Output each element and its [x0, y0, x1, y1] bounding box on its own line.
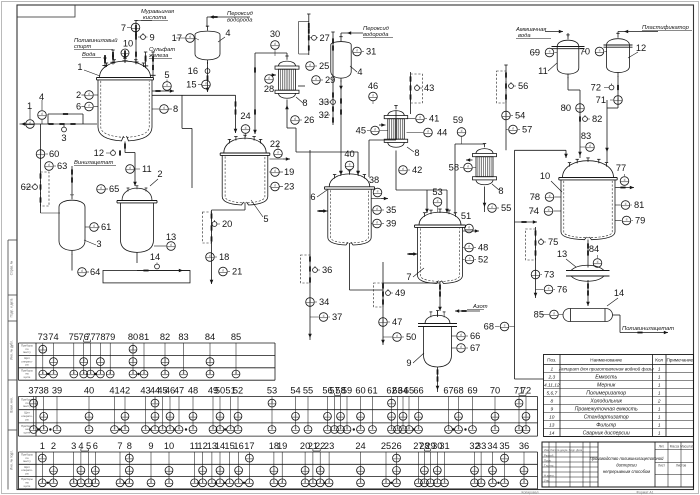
svg-text:ıl: ıl — [53, 371, 55, 375]
svg-text:ıl: ıl — [154, 427, 156, 431]
svg-text:14: 14 — [150, 252, 160, 262]
svg-text:65: 65 — [109, 184, 119, 194]
svg-text:ıl: ıl — [43, 427, 45, 431]
svg-text:8: 8 — [127, 441, 132, 451]
svg-text:80: 80 — [128, 332, 138, 342]
svg-text:ıl: ıl — [53, 480, 55, 484]
svg-text:месту: месту — [23, 350, 31, 354]
svg-text:ıl: ıl — [468, 226, 470, 230]
svg-text:Производство поливинилацетатно: Производство поливинилацетатной — [590, 456, 665, 461]
svg-text:ıl: ıl — [124, 50, 126, 54]
svg-text:67: 67 — [443, 386, 453, 396]
svg-text:9: 9 — [550, 407, 553, 413]
svg-text:ıl: ıl — [249, 480, 251, 484]
svg-text:ıl: ıl — [346, 427, 348, 431]
svg-text:8: 8 — [302, 98, 307, 108]
svg-text:ıl: ıl — [549, 194, 551, 198]
svg-text:ıl: ıl — [209, 371, 211, 375]
svg-text:ıl: ıl — [132, 359, 134, 363]
svg-text:ıl: ıl — [42, 346, 44, 350]
svg-text:68: 68 — [453, 386, 463, 396]
svg-text:11: 11 — [538, 66, 548, 76]
svg-text:46: 46 — [368, 81, 378, 91]
svg-text:38: 38 — [369, 175, 379, 185]
svg-text:ıl: ıl — [319, 480, 321, 484]
svg-text:ıl: ıl — [294, 117, 296, 121]
svg-text:6: 6 — [76, 102, 81, 112]
svg-text:75: 75 — [548, 237, 558, 247]
svg-text:ıl: ıl — [271, 400, 273, 404]
svg-text:82: 82 — [160, 332, 170, 342]
svg-text:ıl: ıl — [56, 427, 58, 431]
svg-text:44: 44 — [437, 128, 447, 138]
svg-text:15: 15 — [186, 80, 196, 90]
svg-text:ıl: ıl — [360, 468, 362, 472]
svg-text:6: 6 — [93, 441, 98, 451]
svg-text:ıl: ıl — [461, 129, 463, 133]
svg-text:ıl: ıl — [219, 427, 221, 431]
svg-text:45: 45 — [356, 126, 366, 136]
svg-text:ıl: ıl — [418, 480, 420, 484]
svg-text:ıl: ıl — [114, 427, 116, 431]
svg-text:Наименование: Наименование — [590, 358, 622, 363]
svg-text:25: 25 — [319, 61, 329, 71]
svg-text:ıl: ıl — [168, 480, 170, 484]
svg-text:13: 13 — [549, 423, 555, 429]
svg-text:ıl: ıl — [168, 468, 170, 472]
svg-text:ıl: ıl — [376, 221, 378, 225]
svg-text:43: 43 — [424, 83, 434, 93]
svg-text:1: 1 — [77, 62, 82, 72]
svg-text:ıl: ıl — [340, 427, 342, 431]
svg-text:1: 1 — [27, 101, 32, 111]
svg-text:16: 16 — [233, 441, 243, 451]
svg-text:26: 26 — [391, 441, 401, 451]
svg-text:ıl: ıl — [88, 413, 90, 417]
svg-text:21: 21 — [232, 267, 242, 277]
svg-text:водорода: водорода — [227, 18, 253, 24]
svg-text:Поливиниловый: Поливиниловый — [74, 37, 118, 44]
svg-text:10: 10 — [164, 441, 174, 451]
svg-text:ıl: ıl — [448, 427, 450, 431]
svg-text:ıl: ıl — [93, 224, 95, 228]
svg-text:ıl: ıl — [304, 480, 306, 484]
svg-text:ıl: ıl — [33, 427, 35, 431]
svg-text:50: 50 — [215, 386, 225, 396]
svg-text:2: 2 — [157, 169, 162, 179]
svg-text:ıl: ıl — [467, 165, 469, 169]
svg-text:Примечание: Примечание — [667, 358, 694, 363]
svg-text:ıl: ıl — [163, 106, 165, 110]
svg-text:39: 39 — [386, 219, 396, 229]
svg-text:34: 34 — [319, 297, 329, 307]
svg-text:Сварник дисперсии: Сварник дисперсии — [583, 431, 630, 437]
svg-text:ıl: ıl — [437, 199, 439, 203]
svg-text:щите: щите — [24, 484, 31, 488]
svg-text:непрерывным способом: непрерывным способом — [603, 469, 650, 474]
svg-text:ıl: ıl — [309, 63, 311, 67]
svg-text:Формат А1: Формат А1 — [636, 491, 653, 495]
svg-text:ıl: ıl — [340, 413, 342, 417]
svg-text:ıl: ıl — [281, 480, 283, 484]
svg-text:37: 37 — [332, 312, 342, 322]
svg-text:ıl: ıl — [494, 427, 496, 431]
svg-text:23: 23 — [324, 441, 334, 451]
svg-text:1: 1 — [658, 407, 661, 413]
svg-text:спирт: спирт — [74, 44, 92, 50]
svg-text:Пластификатор: Пластификатор — [642, 25, 690, 31]
svg-text:13: 13 — [557, 249, 567, 259]
svg-text:ра: ра — [25, 417, 29, 421]
svg-text:ıl: ıl — [525, 427, 527, 431]
svg-text:ıl: ıl — [391, 427, 393, 431]
svg-text:дисперсии: дисперсии — [616, 463, 637, 468]
svg-text:кислота: кислота — [143, 15, 167, 21]
svg-text:12: 12 — [636, 43, 646, 53]
svg-text:8: 8 — [550, 399, 553, 405]
svg-text:ıl: ıl — [474, 480, 476, 484]
svg-text:ıl: ıl — [41, 480, 43, 484]
svg-text:52: 52 — [478, 255, 488, 265]
svg-text:ıl: ıl — [271, 427, 273, 431]
svg-text:35: 35 — [386, 205, 396, 215]
svg-text:ıl: ıl — [553, 312, 555, 316]
svg-text:месту: месту — [23, 459, 31, 463]
svg-text:19: 19 — [284, 167, 294, 177]
svg-text:63: 63 — [57, 161, 67, 171]
svg-text:26: 26 — [304, 115, 314, 125]
svg-text:ıl: ıl — [418, 413, 420, 417]
svg-text:50: 50 — [406, 332, 416, 342]
svg-text:ıl: ıl — [230, 427, 232, 431]
svg-text:ıl: ıl — [245, 126, 247, 130]
svg-text:ıl: ıl — [81, 269, 83, 273]
svg-text:ıl: ıl — [219, 480, 221, 484]
svg-text:ıl: ıl — [128, 455, 130, 459]
svg-text:ıl: ıl — [273, 468, 275, 472]
svg-text:1: 1 — [658, 423, 661, 429]
svg-text:ıl: ıl — [424, 480, 426, 484]
svg-text:ıl: ıl — [460, 345, 462, 349]
svg-text:ıl: ıl — [183, 371, 185, 375]
svg-text:49: 49 — [395, 288, 405, 298]
svg-text:ıl: ıl — [205, 82, 207, 86]
svg-text:ıl: ıl — [88, 480, 90, 484]
svg-text:31: 31 — [439, 441, 449, 451]
svg-text:55: 55 — [303, 386, 313, 396]
svg-text:Стандартизатор: Стандартизатор — [584, 415, 629, 421]
svg-text:ıl: ıl — [169, 413, 171, 417]
svg-text:ıl: ıl — [154, 413, 156, 417]
svg-text:ıl: ıl — [237, 427, 239, 431]
svg-text:ıl: ıl — [424, 468, 426, 472]
svg-text:ıl: ıl — [504, 455, 506, 459]
svg-text:7: 7 — [121, 23, 126, 33]
svg-text:ıl: ıl — [376, 207, 378, 211]
svg-text:ıl: ıl — [397, 427, 399, 431]
svg-text:ıl: ıl — [391, 400, 393, 404]
svg-text:ıl: ıl — [94, 480, 96, 484]
svg-text:ıl: ıl — [408, 427, 410, 431]
svg-text:ıl: ıl — [430, 480, 432, 484]
svg-text:ıl: ıl — [295, 413, 297, 417]
svg-text:ıl: ıl — [427, 130, 429, 134]
svg-text:83: 83 — [178, 332, 188, 342]
svg-text:Утв.: Утв. — [544, 479, 550, 483]
svg-text:1: 1 — [550, 367, 553, 373]
svg-text:56: 56 — [518, 81, 528, 91]
svg-text:4,11,12: 4,11,12 — [544, 383, 560, 389]
svg-text:ıl: ıl — [295, 427, 297, 431]
svg-text:25: 25 — [381, 441, 391, 451]
svg-text:ıl: ıl — [273, 480, 275, 484]
svg-text:ıl: ıl — [124, 427, 126, 431]
svg-text:58: 58 — [449, 163, 459, 173]
svg-text:ıl: ıl — [192, 427, 194, 431]
svg-text:ıl: ıl — [396, 455, 398, 459]
svg-text:ıl: ıl — [458, 427, 460, 431]
svg-text:5,6,7: 5,6,7 — [546, 391, 557, 397]
svg-text:10: 10 — [549, 415, 555, 421]
svg-text:5: 5 — [263, 214, 268, 224]
svg-text:ıl: ıl — [523, 480, 525, 484]
svg-text:ıl: ıl — [494, 413, 496, 417]
svg-text:2: 2 — [76, 90, 81, 100]
svg-text:щите: щите — [24, 375, 31, 379]
svg-text:40: 40 — [84, 386, 94, 396]
svg-text:ıl: ıl — [436, 468, 438, 472]
svg-text:Азот: Азот — [472, 304, 488, 310]
svg-text:ıl: ıl — [209, 254, 211, 258]
svg-text:40: 40 — [344, 149, 354, 159]
svg-text:ıl: ıl — [518, 427, 520, 431]
svg-text:ıl: ıl — [402, 427, 404, 431]
svg-text:ıl: ıl — [377, 190, 379, 194]
svg-text:6: 6 — [310, 192, 315, 202]
svg-text:ıl: ıl — [202, 480, 204, 484]
svg-text:Копировал: Копировал — [522, 491, 539, 495]
svg-text:ıl: ıl — [100, 186, 102, 190]
svg-text:ıl: ıl — [391, 413, 393, 417]
svg-text:ıl: ıl — [418, 427, 420, 431]
svg-text:ıl: ıl — [589, 144, 591, 148]
svg-text:Пероксид: Пероксид — [227, 11, 254, 17]
svg-text:74: 74 — [48, 332, 58, 342]
svg-text:ıl: ıl — [334, 427, 336, 431]
svg-text:42: 42 — [120, 386, 130, 396]
svg-text:9: 9 — [406, 358, 411, 368]
svg-text:81: 81 — [634, 200, 644, 210]
svg-text:ıl: ıl — [518, 400, 520, 404]
svg-text:73: 73 — [38, 332, 48, 342]
svg-text:ıl: ıl — [419, 116, 421, 120]
svg-text:14: 14 — [614, 288, 624, 298]
svg-text:ıl: ıl — [29, 121, 31, 125]
svg-text:ıl: ıl — [396, 334, 398, 338]
svg-text:10: 10 — [123, 39, 133, 49]
svg-text:ıl: ıl — [460, 333, 462, 337]
svg-text:52: 52 — [233, 386, 243, 396]
svg-text:ıl: ıl — [617, 97, 619, 101]
svg-text:ıl: ıl — [219, 468, 221, 472]
svg-text:ıl: ıl — [535, 272, 537, 276]
svg-text:ıl: ıl — [277, 151, 279, 155]
svg-text:Винилацетат: Винилацетат — [74, 160, 113, 166]
svg-text:33: 33 — [476, 441, 486, 451]
svg-text:4: 4 — [39, 92, 44, 102]
svg-text:ıl: ıl — [312, 480, 314, 484]
svg-text:2: 2 — [51, 441, 56, 451]
svg-text:16: 16 — [188, 66, 198, 76]
svg-text:ıl: ıl — [143, 371, 145, 375]
svg-text:35: 35 — [499, 441, 509, 451]
svg-text:2,3: 2,3 — [547, 375, 555, 381]
svg-text:7: 7 — [406, 272, 411, 282]
svg-text:48: 48 — [478, 243, 488, 253]
svg-text:ıl: ıl — [505, 113, 507, 117]
svg-text:1: 1 — [658, 383, 661, 389]
svg-text:36: 36 — [519, 441, 529, 451]
svg-text:ıl: ıl — [523, 468, 525, 472]
svg-text:ıl: ıl — [402, 413, 404, 417]
svg-text:1: 1 — [658, 391, 661, 397]
svg-text:ıl: ıl — [599, 49, 601, 53]
svg-text:Разраб.: Разраб. — [544, 454, 554, 458]
svg-text:ıl: ıl — [222, 269, 224, 273]
svg-text:ıl: ıl — [396, 468, 398, 472]
svg-text:ıl: ıl — [124, 413, 126, 417]
svg-text:39: 39 — [52, 386, 62, 396]
svg-text:9: 9 — [148, 441, 153, 451]
svg-text:Подп. и дата: Подп. и дата — [10, 298, 14, 317]
svg-text:69: 69 — [467, 386, 477, 396]
svg-text:ıl: ıl — [53, 359, 55, 363]
svg-text:ıl: ıl — [189, 35, 191, 39]
svg-text:ıl: ıl — [468, 245, 470, 249]
svg-text:ıl: ıl — [626, 218, 628, 222]
svg-text:ıl: ıl — [474, 468, 476, 472]
svg-text:ıl: ıl — [73, 371, 75, 375]
svg-text:ıl: ıl — [169, 427, 171, 431]
svg-text:36: 36 — [322, 265, 332, 275]
svg-text:1: 1 — [658, 431, 661, 437]
svg-text:ıl: ıl — [229, 480, 231, 484]
svg-text:72: 72 — [591, 83, 601, 93]
svg-text:Масса: Масса — [670, 445, 680, 449]
svg-text:8: 8 — [173, 104, 178, 114]
svg-text:27: 27 — [320, 33, 330, 43]
svg-text:ıl: ıl — [178, 427, 180, 431]
svg-text:ıl: ıl — [73, 480, 75, 484]
svg-text:ıl: ıl — [323, 314, 325, 318]
svg-text:Мерник: Мерник — [597, 383, 616, 389]
svg-text:ıl: ıl — [548, 287, 550, 291]
svg-text:ıl: ıl — [40, 151, 42, 155]
svg-text:ıl: ıl — [444, 480, 446, 484]
svg-text:ıl: ıl — [164, 359, 166, 363]
svg-text:11: 11 — [142, 164, 152, 174]
svg-text:ıl: ıl — [374, 128, 376, 132]
svg-text:ıl: ıl — [579, 105, 581, 109]
svg-text:ıl: ıl — [145, 427, 147, 431]
svg-text:5: 5 — [164, 70, 169, 80]
svg-text:ıl: ıl — [154, 400, 156, 404]
svg-text:17: 17 — [244, 441, 254, 451]
svg-text:ıl: ıl — [150, 480, 152, 484]
svg-text:31: 31 — [366, 47, 376, 57]
svg-text:Инв. № подл.: Инв. № подл. — [10, 450, 14, 470]
svg-text:61: 61 — [367, 386, 377, 396]
svg-text:19: 19 — [277, 441, 287, 451]
svg-text:ıl: ıl — [402, 167, 404, 171]
svg-text:48: 48 — [188, 386, 198, 396]
svg-text:ıl: ıl — [480, 480, 482, 484]
svg-text:57: 57 — [522, 125, 532, 135]
svg-text:ıl: ıl — [164, 371, 166, 375]
svg-text:ıl: ıl — [135, 25, 137, 29]
svg-text:24: 24 — [355, 441, 365, 451]
svg-text:77: 77 — [616, 163, 626, 173]
svg-text:70: 70 — [490, 386, 500, 396]
svg-text:Полимеризатор: Полимеризатор — [586, 391, 626, 397]
svg-text:ıl: ıl — [119, 480, 121, 484]
svg-text:Холодильник: Холодильник — [589, 399, 622, 405]
svg-text:ıl: ıl — [128, 480, 130, 484]
svg-text:ıl: ıl — [88, 427, 90, 431]
svg-text:76: 76 — [557, 285, 567, 295]
svg-text:ıl: ıl — [83, 359, 85, 363]
svg-text:20: 20 — [222, 219, 232, 229]
svg-text:ıl: ıl — [385, 480, 387, 484]
svg-text:Взам. инв.: Взам. инв. — [10, 397, 14, 413]
svg-text:18: 18 — [219, 252, 229, 262]
svg-text:47: 47 — [174, 386, 184, 396]
svg-text:ıl: ıl — [304, 468, 306, 472]
svg-text:Аппарат для приготовления водн: Аппарат для приготовления водной фазы — [558, 366, 654, 372]
svg-text:30: 30 — [270, 29, 280, 39]
svg-text:ıl: ıl — [80, 468, 82, 472]
svg-text:ıl: ıl — [202, 468, 204, 472]
svg-text:ıl: ıl — [209, 359, 211, 363]
svg-text:ıl: ıl — [268, 76, 270, 80]
svg-text:Листов: Листов — [676, 464, 687, 468]
svg-text:ıl: ıl — [625, 202, 627, 206]
svg-text:ıl: ıl — [235, 371, 237, 375]
svg-text:78: 78 — [95, 332, 105, 342]
svg-text:ıl: ıl — [166, 83, 168, 87]
svg-text:ıl: ıl — [319, 468, 321, 472]
svg-text:ıl: ıl — [549, 50, 551, 54]
svg-text:ıl: ıl — [53, 468, 55, 472]
svg-text:ıl: ıl — [170, 243, 172, 247]
svg-text:64: 64 — [90, 267, 100, 277]
svg-text:ıl: ıl — [100, 359, 102, 363]
svg-text:Вода: Вода — [82, 52, 96, 58]
svg-text:81: 81 — [139, 332, 149, 342]
svg-text:ıl: ıl — [504, 324, 506, 328]
svg-text:7: 7 — [117, 441, 122, 451]
svg-text:ıl: ıl — [372, 427, 374, 431]
svg-text:ıl: ıl — [274, 184, 276, 188]
svg-text:1: 1 — [658, 415, 661, 421]
svg-text:14: 14 — [549, 431, 555, 437]
svg-text:ıl: ıl — [132, 346, 134, 350]
svg-text:ıl: ıl — [42, 371, 44, 375]
svg-text:ıl: ıl — [356, 49, 358, 53]
svg-text:3: 3 — [96, 239, 101, 249]
svg-text:ıl: ıl — [249, 455, 251, 459]
svg-text:ıl: ıl — [83, 371, 85, 375]
